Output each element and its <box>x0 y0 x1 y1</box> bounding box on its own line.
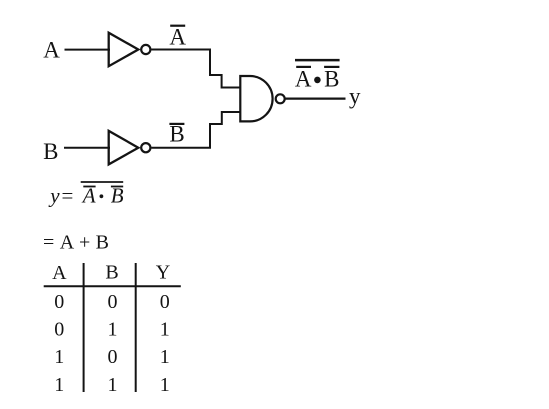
svg-text:0: 0 <box>54 319 64 341</box>
svg-text:B: B <box>111 184 124 208</box>
wire B to inverter U2 <box>64 147 110 149</box>
NAND gate U3 output bubble <box>276 94 285 103</box>
svg-text:A: A <box>295 66 312 91</box>
wire output to y <box>284 97 345 99</box>
NAND gate U3 body <box>240 76 272 121</box>
wire Bbar from U2 to NAND U3 bottom input <box>152 112 241 148</box>
svg-text:A: A <box>52 262 67 284</box>
svg-text:1: 1 <box>160 374 170 396</box>
svg-text:0: 0 <box>108 291 118 313</box>
equation long double overbar <box>81 181 124 183</box>
wire A to inverter U1 <box>65 49 111 51</box>
svg-text:A: A <box>60 231 75 253</box>
output label bullet dot <box>314 77 321 84</box>
output label double overbar (long) <box>295 59 340 62</box>
svg-text:+: + <box>79 231 90 253</box>
svg-text:B: B <box>43 139 58 164</box>
node Abar overbar <box>170 25 185 27</box>
output label overbar on A <box>296 66 311 68</box>
svg-text:1: 1 <box>160 319 170 341</box>
svg-text:1: 1 <box>160 346 170 368</box>
svg-text:1: 1 <box>54 374 64 396</box>
equation middle dot <box>100 194 104 198</box>
truth table vertical divider 2 <box>135 263 137 392</box>
inverter U2 triangle <box>109 131 139 165</box>
wire Abar from U1 to NAND U3 top input <box>152 50 241 88</box>
svg-text:0: 0 <box>108 346 118 368</box>
svg-text:0: 0 <box>160 291 170 313</box>
output label overbar on B <box>324 66 339 68</box>
truth table vertical divider 1 <box>83 263 85 392</box>
svg-text:=: = <box>43 231 54 253</box>
svg-text:B: B <box>96 231 109 253</box>
inverter U2 output bubble <box>141 143 150 152</box>
svg-text:A: A <box>81 184 96 208</box>
svg-text:1: 1 <box>108 374 118 396</box>
inverter U1 output bubble <box>141 45 150 54</box>
svg-text:0: 0 <box>54 291 64 313</box>
equation overbar on B <box>111 186 123 188</box>
svg-text:A: A <box>43 37 60 62</box>
svg-text:B: B <box>169 122 184 147</box>
svg-text:A: A <box>169 25 186 50</box>
svg-text:1: 1 <box>108 319 118 341</box>
svg-text:B: B <box>105 262 118 284</box>
svg-text:B: B <box>324 66 339 91</box>
equation overbar on A <box>83 186 95 188</box>
inverter U1 triangle <box>109 33 139 66</box>
node Bbar overbar <box>169 123 184 125</box>
svg-text:=: = <box>62 184 74 208</box>
truth table header rule <box>44 285 181 287</box>
svg-text:y: y <box>48 184 60 208</box>
svg-text:1: 1 <box>54 346 64 368</box>
svg-text:y: y <box>349 84 361 109</box>
svg-text:Y: Y <box>156 262 170 284</box>
